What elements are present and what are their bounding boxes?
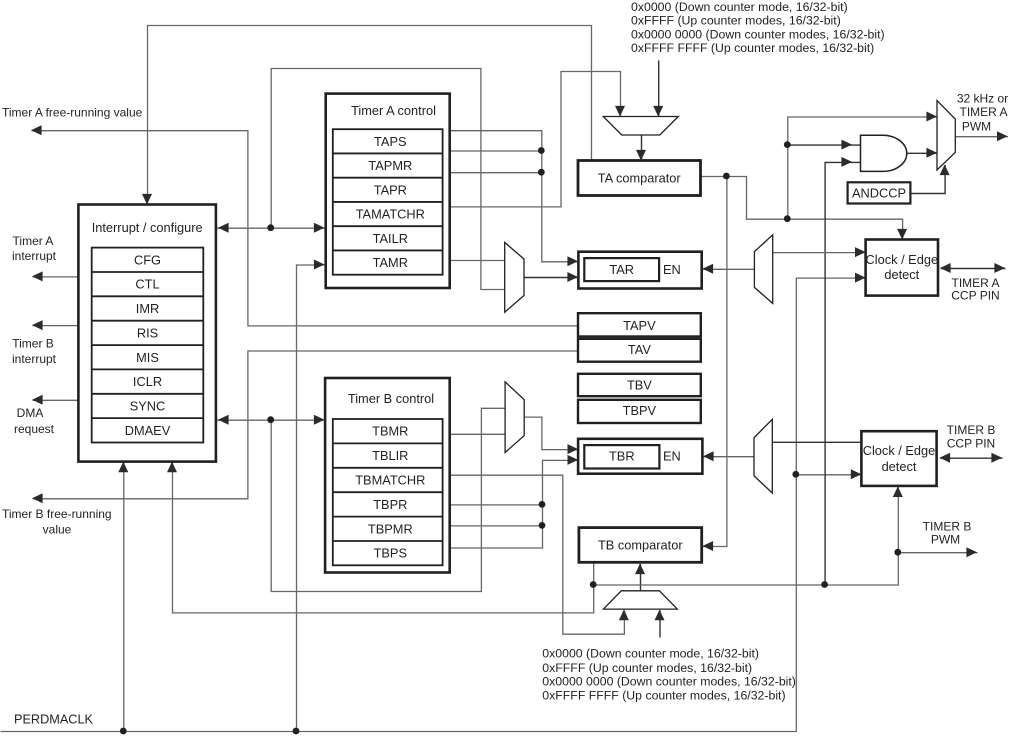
svg-text:EN: EN	[663, 449, 681, 464]
junction AND upper input branch	[784, 141, 791, 148]
junction Clock/Edge A top branch	[784, 215, 791, 222]
svg-text:0xFFFF (Up counter modes, 16/3: 0xFFFF (Up counter modes, 16/32-bit)	[631, 14, 841, 28]
block Timer A control	[326, 94, 450, 288]
svg-text:Interrupt / configure: Interrupt / configure	[92, 220, 203, 235]
svg-text:CFG: CFG	[134, 252, 161, 267]
junction on bidir A wire	[267, 224, 274, 231]
svg-text:ANDCCP: ANDCCP	[852, 186, 906, 201]
wire: Timer A interrupt	[33, 276, 79, 278]
svg-text:Timer A: Timer A	[13, 234, 54, 248]
arrowhead Clock/Edge B lower input	[851, 469, 862, 479]
wire: AND gate output to mux M5	[907, 152, 937, 154]
svg-text:DMA: DMA	[17, 406, 44, 420]
svg-text:TB comparator: TB comparator	[598, 538, 683, 553]
svg-text:TAPV: TAPV	[623, 318, 656, 333]
wire: TB comparator output branch right	[594, 487, 899, 585]
wire: Timer B interrupt	[33, 325, 79, 327]
mux M7 right of TBR	[754, 419, 772, 493]
registers of Timer A control	[356, 134, 425, 270]
wire: bidirectional Interrupt/configure to Timer A control	[216, 227, 325, 229]
wire: DMA request	[33, 399, 79, 401]
wire: TAPR output stub	[451, 172, 542, 174]
svg-text:EN: EN	[663, 262, 681, 277]
svg-text:TAMATCHR: TAMATCHR	[356, 207, 425, 222]
svg-text:PERDMACLK: PERDMACLK	[14, 713, 93, 727]
register TBV	[578, 374, 701, 396]
block Interrupt / configure	[78, 205, 216, 462]
arrowhead mux M1 right input	[653, 106, 663, 117]
arrowhead Clock/Edge A top input	[897, 229, 907, 240]
svg-text:PWM: PWM	[931, 533, 960, 547]
wire: TBPMR output stub	[451, 525, 543, 527]
arrowhead Timer A free-running value	[31, 125, 42, 135]
svg-text:0x0000 (Down counter mode, 16/: 0x0000 (Down counter mode, 16/32-bit)	[631, 0, 848, 14]
wire: PERDMACLK branch to Clock/Edge detect B lower input	[796, 474, 862, 476]
junction TBPMR stub	[539, 522, 546, 529]
svg-text:PWM: PWM	[962, 120, 991, 134]
arrowhead TAMR clock	[314, 260, 325, 270]
svg-text:request: request	[14, 422, 55, 436]
registers of Interrupt / configure	[125, 252, 171, 438]
arrowhead into Interrupt bottom 1	[118, 462, 128, 473]
svg-text:interrupt: interrupt	[12, 249, 57, 263]
label TIMER A CCP PIN	[951, 276, 999, 303]
svg-text:TAPR: TAPR	[374, 182, 407, 197]
svg-text:SYNC: SYNC	[130, 399, 166, 414]
svg-text:TBLIR: TBLIR	[372, 448, 408, 463]
label bottom constants	[542, 647, 796, 703]
arrowhead TIMER B CCP PIN left	[940, 453, 951, 463]
wire: TAPMR output stub	[451, 150, 542, 152]
svg-text:value: value	[43, 523, 72, 537]
arrowhead TBR lower input	[568, 455, 579, 465]
block Clock / Edge detect A	[866, 240, 938, 296]
svg-text:TAPS: TAPS	[374, 134, 406, 149]
junction on bidir B wire	[267, 416, 274, 423]
arrowhead TAR upper input	[567, 256, 578, 266]
svg-text:TBPR: TBPR	[373, 497, 407, 512]
arrowhead Timer B free-running value	[32, 493, 43, 503]
wire: TA comparator output to Clock/Edge detect A top	[701, 177, 903, 241]
register stack of Timer B control	[333, 419, 443, 565]
wire: mux M6 output to TAR EN	[703, 268, 755, 270]
wire: mux M1 output to TA comparator	[641, 136, 643, 162]
mux M3 left of TBR	[505, 382, 524, 453]
wire: PERDMACLK rail to TAMR clock input	[297, 265, 326, 732]
label Clock/Edge detect B	[863, 443, 936, 474]
block TB comparator	[579, 528, 702, 563]
MUXES	[505, 101, 956, 609]
register stack of Timer A control	[333, 129, 443, 275]
BOXES	[78, 94, 938, 573]
arrowhead bidir B right	[314, 415, 325, 425]
wire: TB comparator output down to Interrupt/configure bottom	[173, 462, 594, 613]
svg-text:TBPMR: TBPMR	[368, 521, 413, 536]
svg-text:Timer B control: Timer B control	[348, 391, 434, 406]
svg-text:Timer A free-running value: Timer A free-running value	[2, 105, 143, 119]
wire: mux M6 to Clock/Edge detect A upper input	[773, 252, 866, 254]
svg-text:32 kHz or: 32 kHz or	[957, 92, 1008, 106]
register stack of Interrupt / configure	[92, 248, 204, 443]
wire: PERDMACLK rail to Interrupt/configure bottom	[123, 462, 125, 731]
arrowhead TAR EN input	[703, 264, 714, 274]
svg-text:TAMR: TAMR	[373, 255, 408, 270]
label Clock/Edge detect A	[866, 252, 939, 282]
mux M5 output select 32kHz / TIMER A PWM	[937, 101, 955, 170]
svg-text:0xFFFF (Up counter modes, 16/3: 0xFFFF (Up counter modes, 16/32-bit)	[542, 661, 752, 675]
arrowhead bidir A left	[218, 223, 229, 233]
arrowhead TBR EN input	[703, 451, 714, 461]
svg-text:0xFFFF FFFF (Up counter modes,: 0xFFFF FFFF (Up counter modes, 16/32-bit…	[631, 41, 874, 55]
label DMA request	[14, 406, 55, 436]
wire: constants text to mux M4 right input	[659, 610, 661, 637]
register ANDCCP	[848, 182, 911, 203]
mux M1 above TA comparator	[603, 117, 678, 136]
arrowhead bidir B left	[218, 415, 229, 425]
junction TAPMR stub	[538, 147, 545, 154]
arrowhead Timer A interrupt	[32, 271, 43, 281]
arrowhead Timer B interrupt	[32, 320, 43, 330]
wire: TBMR output to mux M3	[451, 433, 506, 435]
svg-text:interrupt: interrupt	[12, 352, 57, 366]
svg-text:Timer B free-running: Timer B free-running	[2, 507, 112, 521]
arrowhead TBR upper input	[568, 444, 579, 454]
wire: AND gate upper input stub	[788, 144, 861, 146]
junction PERDMACLK to Clock/Edge B	[792, 471, 799, 478]
arrowhead TIMER B PWM	[966, 547, 977, 557]
arrowhead into Interrupt/configure top	[142, 194, 152, 205]
svg-text:TAV: TAV	[628, 342, 651, 357]
label TIMER B CCP PIN	[947, 423, 996, 451]
svg-text:TIMER B: TIMER B	[947, 423, 996, 437]
arrowhead mux M1 left input	[615, 106, 625, 117]
arrowhead ANDCCP to mux M5	[940, 165, 950, 176]
arrowhead Clock/Edge A upper input	[855, 247, 866, 257]
label Timer B interrupt	[12, 337, 57, 367]
block Clock / Edge detect B	[861, 431, 936, 486]
svg-text:TBPV: TBPV	[623, 403, 657, 418]
label 32 kHz or TIMER A PWM	[957, 92, 1008, 134]
label top constants	[631, 0, 885, 55]
wire: mux M2 output to TAR	[525, 277, 579, 279]
mux M2 left of TAR	[505, 242, 524, 312]
wire: TAPS output stub	[451, 131, 579, 262]
register TBPV	[578, 400, 701, 423]
arrowhead TIMER A CCP PIN left	[940, 263, 951, 273]
svg-text:Timer A control: Timer A control	[351, 103, 436, 118]
svg-text:CCP PIN: CCP PIN	[951, 289, 999, 303]
svg-text:0x0000 0000 (Down counter mode: 0x0000 0000 (Down counter modes, 16/32-b…	[542, 675, 796, 689]
arrowhead TAR lower input	[567, 272, 578, 282]
svg-text:RIS: RIS	[137, 325, 158, 340]
mux M4 below TB comparator	[603, 591, 677, 609]
wire: register data bus to mux M2 lower input	[271, 69, 505, 290]
svg-text:IMR: IMR	[136, 301, 159, 316]
svg-text:ICLR: ICLR	[133, 374, 162, 389]
junction TAPR stub	[538, 169, 545, 176]
arrowhead AND gate upper input	[841, 140, 852, 150]
svg-text:TBMATCHR: TBMATCHR	[355, 473, 425, 488]
wire: TBPR output stub	[451, 504, 543, 506]
arrowhead mux M5 output	[997, 131, 1008, 141]
arrowhead TIMER A CCP PIN right	[994, 263, 1005, 273]
arrowhead TIMER B CCP PIN right	[991, 453, 1002, 463]
wire: constants text to mux M1 right input	[658, 61, 660, 118]
junction PERDMACLK rail 2	[293, 728, 300, 735]
arrowhead mux M4 left input	[619, 610, 629, 621]
svg-text:0x0000 (Down counter mode, 16/: 0x0000 (Down counter mode, 16/32-bit)	[542, 647, 759, 661]
wire: Timer A free-running value from TAPV	[32, 131, 579, 326]
arrowhead into Interrupt bottom 2	[167, 462, 177, 473]
junction TIMER B PWM branch	[894, 549, 901, 556]
wire: PERDMACLK rail	[1, 278, 867, 731]
wire: mux M7 output to TBR EN	[704, 456, 755, 458]
register TAV	[578, 339, 701, 362]
wire: mux M4 output to TB comparator	[640, 564, 642, 591]
ARROWHEADS	[31, 106, 1008, 620]
wire: TIMER B PWM output	[898, 552, 977, 554]
junction PERDMACLK rail 1	[120, 728, 127, 735]
svg-text:CTL: CTL	[135, 277, 159, 292]
wire: TA comparator branch to TB comparator right input	[703, 177, 727, 547]
arrowhead TB comparator right input	[703, 541, 714, 551]
wire: mux M7 to Clock/Edge detect B upper input	[773, 441, 863, 443]
svg-text:TIMER A: TIMER A	[959, 105, 1007, 119]
register TBR with EN	[578, 439, 702, 474]
svg-text:TIMER B: TIMER B	[923, 520, 972, 534]
junction TB comparator output branch	[590, 581, 597, 588]
arrowhead mux M5 upper input	[926, 112, 937, 122]
wire: mux M3 output to TBR	[525, 417, 579, 450]
svg-text:0xFFFF FFFF (Up counter modes,: 0xFFFF FFFF (Up counter modes, 16/32-bit…	[542, 689, 785, 703]
svg-text:TBV: TBV	[627, 378, 652, 393]
wire: TA comparator branch to mux M5 and AND gate upper input	[788, 117, 938, 219]
arrowhead bidir A right	[314, 223, 325, 233]
svg-text:TAILR: TAILR	[373, 231, 408, 246]
AND gate	[861, 135, 907, 171]
junction TBPR stub	[539, 501, 546, 508]
arrowhead mux M4 output into TB comparator	[635, 564, 645, 575]
arrowhead mux M4 right input	[655, 610, 665, 621]
wire: bidirectional Interrupt/configure to Timer B control	[216, 419, 325, 421]
svg-text:CCP PIN: CCP PIN	[947, 437, 995, 451]
label TIMER B PWM	[923, 520, 972, 547]
arrowhead Clock/Edge B bottom input	[893, 486, 903, 497]
svg-text:detect: detect	[882, 459, 917, 474]
junction AND lower input branch	[821, 581, 828, 588]
wire: Timer B free-running value from TAV	[33, 351, 579, 499]
wire: mux M5 output 32kHz or TIMER A PWM	[956, 136, 1008, 138]
registers of Timer B control	[355, 424, 425, 561]
block Timer B control	[325, 378, 450, 573]
wire: TA comparator interrupt to Interrupt/configure top	[148, 26, 592, 206]
wire: TBPS output stub to TBR	[451, 460, 579, 548]
svg-text:0x0000 0000 (Down counter mode: 0x0000 0000 (Down counter modes, 16/32-b…	[631, 27, 885, 41]
svg-text:TBPS: TBPS	[374, 546, 407, 561]
register TAR with EN	[578, 252, 701, 289]
svg-text:detect: detect	[884, 267, 919, 282]
wire: ANDCCP output to mux M5 select	[911, 165, 945, 194]
arrowhead AND gate lower input	[841, 157, 852, 167]
svg-text:TA comparator: TA comparator	[598, 171, 682, 186]
svg-text:DMAEV: DMAEV	[125, 423, 171, 438]
mux M6 right of TAR	[754, 235, 772, 304]
wire: TB comparator net to AND gate lower input	[825, 162, 861, 585]
junction TA comparator output branch	[723, 173, 730, 180]
register TAPV	[578, 313, 701, 336]
wire: TBMATCHR to mux M4 left input	[451, 475, 624, 634]
wire: TIMER B CCP PIN bidirectional	[940, 457, 1003, 459]
svg-text:TBR: TBR	[609, 449, 635, 464]
wire: TAMR output to mux M2	[451, 260, 505, 262]
svg-text:TBMR: TBMR	[372, 424, 408, 439]
label Timer B free-running value	[2, 507, 112, 537]
label Timer A interrupt	[12, 234, 57, 263]
svg-text:MIS: MIS	[136, 350, 159, 365]
wire: TIMER A CCP PIN bidirectional	[941, 268, 1006, 270]
svg-text:TAPMR: TAPMR	[368, 158, 412, 173]
svg-text:Clock / Edge: Clock / Edge	[866, 252, 939, 267]
arrowhead Clock/Edge A lower input	[855, 273, 866, 283]
arrowhead DMA request	[32, 395, 43, 405]
wire: TAMATCHR to mux M1 left input	[451, 72, 621, 207]
svg-text:Clock / Edge: Clock / Edge	[863, 443, 936, 458]
arrowhead mux M5 lower input	[926, 148, 937, 158]
wire: register data bus to mux M3 upper input	[271, 408, 505, 591]
arrowhead mux M1 output into TA comparator	[636, 150, 646, 161]
svg-text:Timer B: Timer B	[12, 337, 54, 351]
block TA comparator	[578, 161, 701, 196]
svg-text:TAR: TAR	[609, 262, 634, 277]
